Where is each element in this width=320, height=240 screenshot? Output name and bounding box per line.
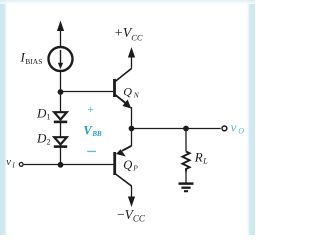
svg-text:R: R	[194, 150, 203, 165]
svg-text:D: D	[36, 106, 47, 121]
svg-text:+: +	[88, 104, 95, 116]
svg-text:BIAS: BIAS	[25, 57, 42, 66]
svg-text:v: v	[6, 157, 11, 168]
svg-text:1: 1	[47, 113, 51, 122]
svg-text:Q: Q	[123, 85, 132, 99]
svg-text:O: O	[238, 126, 244, 135]
svg-text:2: 2	[47, 138, 51, 147]
svg-text:v: v	[231, 119, 237, 134]
svg-text:D: D	[36, 131, 47, 146]
svg-text:BB: BB	[91, 130, 102, 138]
svg-text:Q: Q	[123, 158, 132, 172]
svg-text:P: P	[132, 164, 138, 173]
svg-text:N: N	[133, 91, 140, 100]
svg-text:L: L	[202, 156, 208, 165]
